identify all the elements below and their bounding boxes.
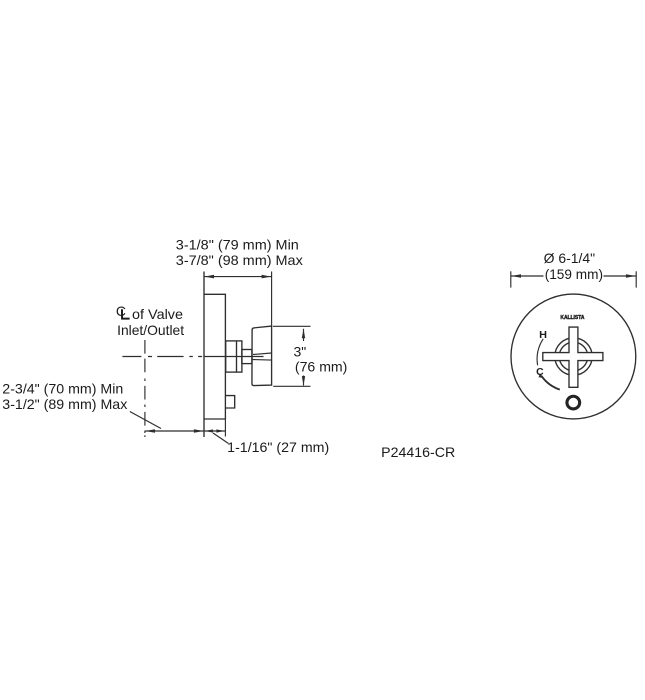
svg-text:1-1/16" (27 mm): 1-1/16" (27 mm) [227,439,329,455]
svg-text:H: H [539,330,547,341]
svg-text:C: C [536,367,544,378]
svg-text:3": 3" [294,344,307,360]
svg-text:3-1/2" (89 mm) Max: 3-1/2" (89 mm) Max [2,396,127,412]
svg-text:(159 mm): (159 mm) [545,266,603,282]
svg-text:P24416-CR: P24416-CR [381,444,455,460]
svg-text:2-3/4" (70 mm) Min: 2-3/4" (70 mm) Min [2,381,123,397]
svg-text:Ø 6-1/4": Ø 6-1/4" [544,250,596,266]
svg-text:3-1/8" (79 mm) Min: 3-1/8" (79 mm) Min [176,237,299,253]
svg-text:Inlet/Outlet: Inlet/Outlet [117,322,184,338]
svg-text:KALLISTA: KALLISTA [560,315,584,321]
svg-text:C: C [116,303,126,319]
svg-text:(76 mm): (76 mm) [295,358,348,374]
svg-text:of Valve: of Valve [132,306,183,322]
svg-text:3-7/8" (98 mm) Max: 3-7/8" (98 mm) Max [176,252,303,268]
